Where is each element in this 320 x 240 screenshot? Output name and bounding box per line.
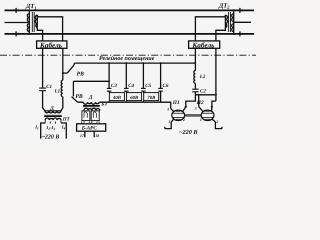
transformer PT top lead — [45, 110, 61, 112]
svg-text:Д: Д — [49, 105, 54, 111]
svg-text:15: 15 — [96, 120, 100, 124]
svg-text:L1: L1 — [54, 88, 61, 94]
svg-text:2: 2 — [215, 120, 218, 124]
wire cable pair left below box — [42, 48, 44, 88]
wire cable D down to P2 — [212, 101, 216, 107]
svg-text:П2: П2 — [196, 100, 204, 106]
node insulated joint left bottom — [16, 31, 20, 36]
wire C1 to PT — [43, 91, 45, 111]
device P1 (round plug) — [171, 107, 186, 122]
wire right center-tap line — [234, 21, 251, 23]
svg-text:С4: С4 — [128, 83, 134, 89]
box 40V — [109, 93, 124, 101]
wire DT2 secondary bottom lead — [216, 28, 226, 41]
inductor L2 — [194, 71, 196, 84]
svg-text:1: 1 — [200, 118, 202, 122]
transformer BT bottom winding — [84, 108, 100, 111]
svg-text:3: 3 — [194, 106, 197, 110]
svg-text:3: 3 — [166, 108, 169, 112]
connector plug right of B-ARS — [91, 111, 99, 121]
device P2 (round plug) — [199, 107, 216, 122]
svg-text:С3: С3 — [111, 83, 117, 89]
wire cable pair right below box — [194, 48, 196, 70]
svg-text:БТ: БТ — [100, 102, 108, 108]
transformer BT core — [83, 106, 100, 107]
svg-text:С2: С2 — [200, 89, 206, 95]
node insulated joint left top — [16, 8, 20, 13]
node P1 pin4 — [185, 106, 187, 108]
svg-text:~220 В: ~220 В — [42, 134, 60, 140]
wire capacitor drops — [108, 63, 110, 88]
svg-text:13: 13 — [81, 120, 85, 124]
node bus junctions — [108, 62, 162, 64]
contact RV upper — [63, 63, 75, 73]
transformer DT1 (impedance bond, left) — [27, 9, 37, 35]
capacitor C1 — [39, 88, 46, 91]
node insulated joint right top — [240, 8, 244, 13]
transformer PT secondary winding with taps — [45, 118, 61, 120]
capacitor C2 — [192, 89, 198, 92]
svg-text:Д: Д — [88, 94, 93, 100]
svg-text:Кабель: Кабель — [191, 41, 215, 49]
wire PT 220V bracket — [41, 123, 46, 139]
wire L1 to PT — [61, 97, 63, 111]
svg-text:L2: L2 — [199, 74, 206, 80]
wire C2 bottom cross link — [195, 94, 216, 96]
svg-text:РВ: РВ — [77, 72, 84, 78]
wire P1 leg to 220V — [165, 122, 171, 129]
wire DT2 secondary top lead — [195, 15, 225, 41]
box 70V — [144, 93, 159, 101]
svg-text:60В: 60В — [130, 95, 139, 101]
node P2 pin4 — [211, 106, 213, 108]
wire bottom rail — [5, 33, 255, 35]
cable box right — [189, 41, 220, 48]
svg-text:Б-АРС: Б-АРС — [81, 126, 98, 132]
cable box left — [37, 41, 67, 48]
svg-text:40В: 40В — [112, 95, 122, 101]
capacitor C6 — [158, 88, 163, 91]
svg-text:С6: С6 — [163, 83, 169, 89]
wire link between P1 and P2 — [184, 115, 201, 116]
wire lower tap line to C3 drop — [73, 80, 109, 82]
wire P2 leg to 220V — [215, 122, 222, 129]
transformer BT top winding — [84, 102, 100, 104]
wire L2 to C2 — [194, 83, 196, 89]
wire DT1 secondary bottom lead — [37, 28, 42, 41]
inductor L1 — [61, 80, 63, 97]
wire left center-tap line — [5, 22, 30, 24]
transformer PT top winding — [45, 111, 61, 113]
box B-ARS — [77, 124, 106, 131]
svg-text:С1: С1 — [46, 84, 52, 90]
svg-text:П1: П1 — [172, 100, 180, 106]
svg-text:Кабель: Кабель — [39, 41, 63, 49]
svg-text:1: 1 — [169, 120, 171, 124]
svg-text:ПТ: ПТ — [62, 117, 71, 123]
wire C2 down to P1 — [186, 92, 196, 107]
wire upper bus — [75, 62, 196, 64]
node insulated joint right bottom — [240, 31, 244, 36]
svg-text:С5: С5 — [145, 83, 151, 89]
connector plug left of B-ARS — [82, 111, 90, 121]
svg-text:РВ: РВ — [75, 94, 82, 100]
wire B-ARS bottom stubs pins 17 18 — [84, 131, 86, 137]
wire DT1 secondary top lead — [37, 15, 62, 41]
wire cap to boxes stubs — [108, 91, 110, 93]
svg-text:~220 В: ~220 В — [179, 129, 197, 136]
svg-text:2: 2 — [182, 118, 185, 122]
transformer PT core — [44, 115, 62, 116]
svg-text:14: 14 — [89, 120, 93, 124]
capacitor C4 — [124, 88, 129, 91]
transformer DT2 (impedance bond, right) — [225, 9, 234, 35]
box 60V — [127, 93, 142, 101]
wire P2 pin3 up link — [198, 95, 200, 107]
svg-text:18: 18 — [95, 134, 99, 138]
contact RV lower — [72, 81, 78, 102]
svg-text:Релейное помещение: Релейное помещение — [99, 55, 155, 62]
capacitor C5 — [141, 88, 146, 91]
wire bottom bus — [78, 102, 171, 106]
boundary dash-dot line (relay room) — [0, 54, 256, 56]
wire top rail — [5, 9, 255, 11]
capacitor C3 — [107, 88, 112, 91]
svg-text:70В: 70В — [147, 95, 156, 101]
